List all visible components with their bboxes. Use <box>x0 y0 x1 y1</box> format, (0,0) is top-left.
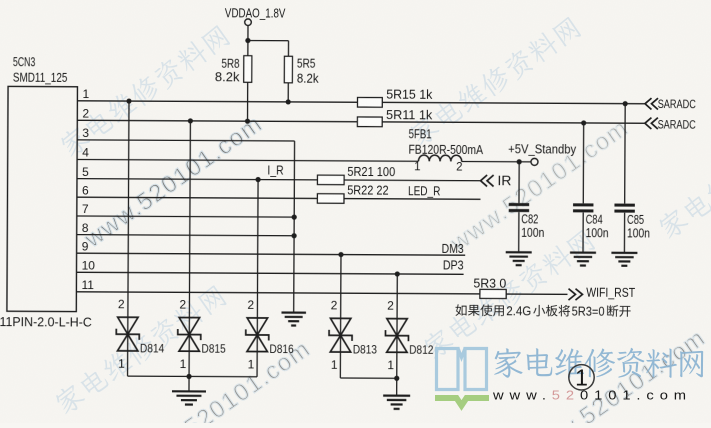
node pin5/D816 junction <box>255 177 260 182</box>
logo text 家电维修资料网 <box>494 348 522 377</box>
capacitor C82 <box>518 162 520 203</box>
wire pin 9 <box>77 253 466 255</box>
node pin2/D815 junction <box>188 118 193 123</box>
wire pin 1 <box>77 101 645 104</box>
note text 2.4G <box>455 304 466 316</box>
transient diode D814 <box>118 317 138 334</box>
node pin2/5R8 junction <box>245 119 250 124</box>
wire pin3 to ground column <box>293 141 296 312</box>
node pin2/C84 junction <box>581 120 586 125</box>
logo book swoosh <box>435 398 489 406</box>
wire pin 4 <box>77 159 418 161</box>
node pin4/C82 junction <box>517 159 522 164</box>
wire D812 column <box>396 274 399 378</box>
wire D813 column <box>339 255 342 378</box>
ground under C85 <box>611 252 637 254</box>
wire 5R5 to pin1 <box>287 83 289 102</box>
node VDDAO junction <box>245 38 250 43</box>
resistor 5R15 <box>357 97 382 107</box>
wire pin 7 <box>77 216 294 217</box>
wire 5R8 to pin2 <box>246 82 248 121</box>
node pin1/D814 junction <box>126 98 131 103</box>
node pin9/D813 junction <box>338 252 343 257</box>
transient diode D816 <box>247 318 267 335</box>
resistor 5R21 <box>317 175 344 185</box>
node rail/D812 junction <box>394 376 399 381</box>
ground under D815 <box>188 376 190 391</box>
wire diode bottom rail D813-D812 <box>340 377 396 379</box>
wire pin 11 <box>76 292 567 295</box>
connector 5CN3 box <box>7 86 78 311</box>
wire VDDAO branch <box>248 39 289 41</box>
wire diode bottom rail D814-D816 <box>128 375 257 378</box>
resistor 5R22 <box>317 194 344 204</box>
wire pin 10 <box>76 272 463 274</box>
arrow IR <box>481 175 488 186</box>
arrow SARADC pin2 <box>645 118 652 129</box>
node rail/D815 junction <box>186 374 191 379</box>
wire pin 5 <box>77 179 481 181</box>
node pin1/C85 junction <box>623 101 628 106</box>
wire pin 8 <box>77 235 294 236</box>
ground under C84 <box>570 251 596 253</box>
wire D816 column <box>257 180 258 377</box>
wire pin 3 <box>77 140 294 141</box>
wire D815 column <box>189 121 190 377</box>
ground pins 3/7/8 <box>281 311 305 313</box>
callout circled 1 <box>569 365 594 390</box>
node pin1/5R5 junction <box>286 99 291 104</box>
resistor 5R5 <box>284 56 292 83</box>
arrow WIFI_RST <box>568 289 575 300</box>
node pin10/D812 junction <box>395 271 400 276</box>
wire VDDAO down <box>247 25 249 40</box>
ground under C82 <box>506 251 532 253</box>
resistor 5R11 <box>357 117 382 127</box>
arrow SARADC pin1 <box>645 98 652 109</box>
logo book icon <box>437 349 487 390</box>
transient diode D813 <box>330 318 350 335</box>
capacitor C85 <box>624 104 627 204</box>
node pin7/gnd junction <box>292 215 297 220</box>
wire D814 column <box>128 101 129 376</box>
ground under D812 <box>396 378 398 395</box>
wire pin 6 <box>77 197 481 199</box>
resistor 5R8 <box>247 40 249 55</box>
node pin8/gnd junction <box>291 233 296 238</box>
transient diode D815 <box>179 318 199 335</box>
transient diode D812 <box>387 319 407 336</box>
wire pin 2 <box>77 120 645 123</box>
capacitor C84 <box>582 123 584 203</box>
